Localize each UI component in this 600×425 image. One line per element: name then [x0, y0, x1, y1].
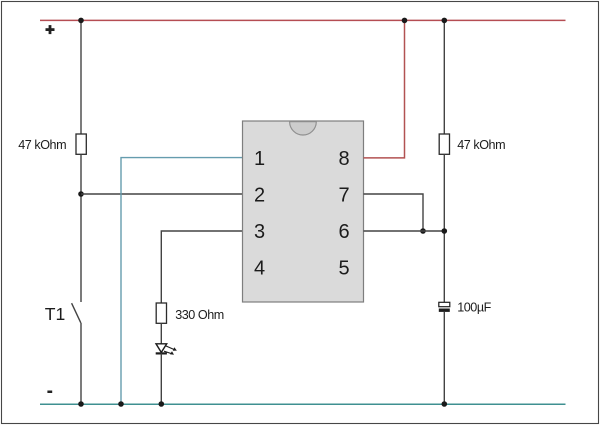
svg-text:47 kOhm: 47 kOhm	[457, 138, 505, 152]
svg-text:47 kOhm: 47 kOhm	[18, 138, 66, 152]
- label	[47, 391, 52, 394]
svg-text:4: 4	[254, 258, 265, 280]
wire: capacitor to ground rail	[443, 312, 445, 404]
junction: +V rail / left branch	[78, 18, 84, 24]
wire: left resistor down to switch T1	[80, 154, 82, 302]
wire: LED to ground rail	[160, 353, 162, 404]
wire: +V rail to right resistor	[443, 20, 445, 134]
junction: right branch / ground rail	[442, 401, 448, 407]
junction: red pin8 wire / +V rail	[402, 18, 408, 24]
svg-text:6: 6	[338, 221, 349, 243]
wire: pin 3 to resistor 330 Ohm	[161, 231, 242, 303]
svg-text:8: 8	[338, 148, 349, 170]
wire: pin 7 to right branch	[364, 194, 424, 231]
capacitor C1 100uF	[439, 302, 450, 312]
wire: switch T1 to ground rail	[80, 323, 82, 404]
wire: +V rail to left resistor	[80, 20, 82, 134]
svg-text:330 Ohm: 330 Ohm	[175, 308, 224, 322]
wire: pin 6 to right branch	[364, 230, 445, 232]
LED D1	[156, 344, 175, 354]
svg-text:2: 2	[254, 185, 265, 207]
resistor R3 47 kOhm (right) body	[439, 134, 449, 154]
wire: pin 1 to ground rail (blue)	[121, 158, 243, 404]
junction: +V rail / right branch	[442, 18, 448, 24]
svg-text:T1: T1	[45, 304, 66, 324]
resistor R2 330 Ohm body	[156, 303, 166, 323]
wire: resistor 330 to LED	[160, 323, 162, 344]
junction: LED branch / ground rail	[159, 401, 165, 407]
IC U1 orientation notch	[290, 122, 317, 135]
wire: pin 2 to left branch	[81, 193, 243, 195]
resistor R1 47 kOhm (left) body	[76, 134, 86, 154]
wire: pin 8 to +V rail (red)	[364, 20, 405, 158]
ground rail (-)	[40, 403, 566, 405]
junction: left branch / ground rail	[78, 401, 84, 407]
junction: pin7 wire / pin6 wire	[420, 228, 426, 234]
op-amp / timer IC U1 body	[243, 121, 364, 302]
junction: blue pin1 wire / ground rail	[118, 401, 124, 407]
svg-text:100µF: 100µF	[457, 300, 491, 314]
switch T1 lever	[72, 303, 81, 323]
junction: pin6 wire / right branch	[442, 228, 448, 234]
+V supply rail	[40, 19, 566, 21]
svg-text:3: 3	[254, 221, 265, 243]
junction: pin2 tap on left branch	[78, 191, 84, 197]
+ label	[46, 25, 55, 34]
wire: right resistor down to capacitor	[443, 154, 445, 302]
svg-text:5: 5	[338, 258, 349, 280]
svg-text:7: 7	[338, 185, 349, 207]
svg-text:1: 1	[254, 148, 265, 170]
